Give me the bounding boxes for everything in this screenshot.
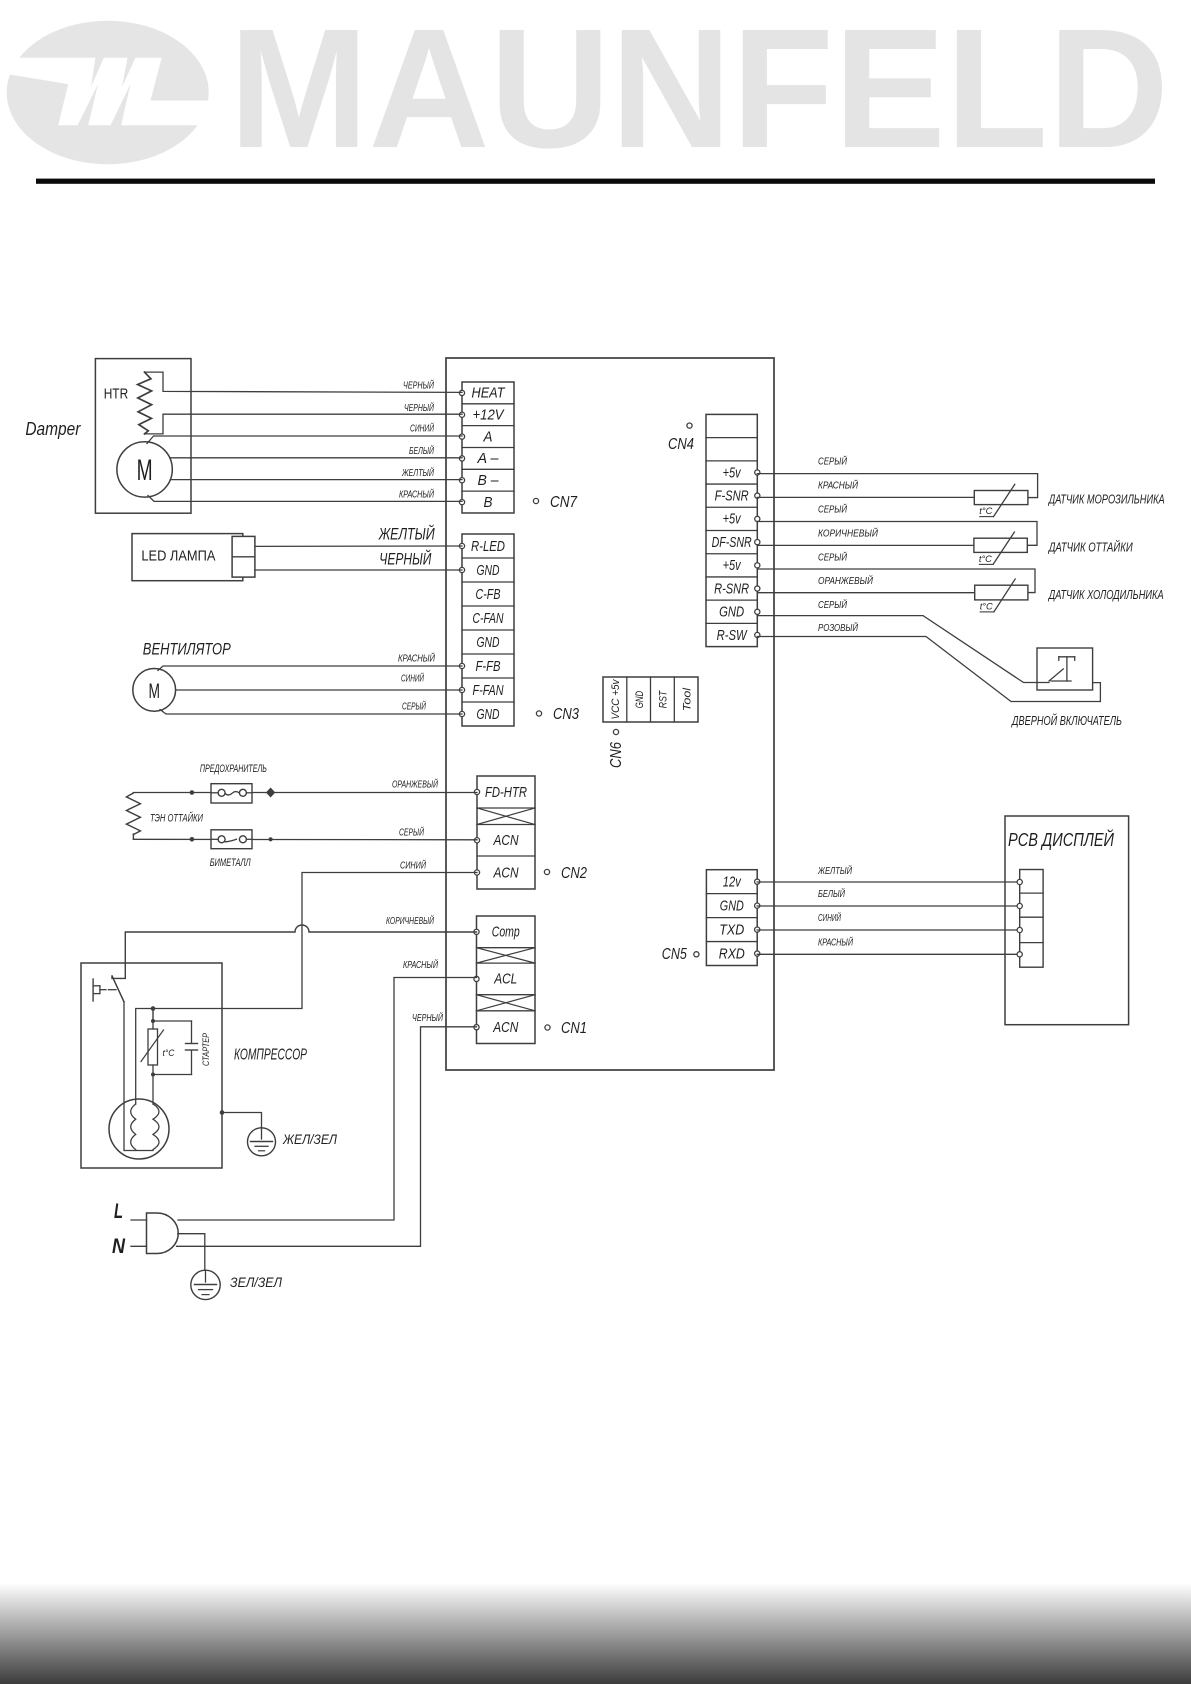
svg-text:F-FB: F-FB bbox=[476, 658, 501, 675]
svg-text:ACN: ACN bbox=[493, 832, 519, 849]
compressor box КОМПРЕССОР bbox=[81, 963, 222, 1168]
svg-text:C-FB: C-FB bbox=[476, 586, 501, 603]
svg-text:C-FAN: C-FAN bbox=[473, 610, 504, 627]
svg-text:GND: GND bbox=[477, 562, 500, 579]
pin display connector bbox=[1017, 879, 1022, 884]
svg-text:Tool: Tool bbox=[681, 687, 693, 711]
wire fuse line to FD-HTR (ОРАНЖЕВЫЙ) bbox=[133, 792, 477, 794]
pin ('A', 9) of CN7 bbox=[459, 434, 464, 439]
wire LED GND (ЧЕРНЫЙ) bbox=[255, 569, 462, 571]
svg-text:GND: GND bbox=[634, 691, 646, 708]
svg-text:CN4: CN4 bbox=[668, 436, 694, 453]
starter capacitor СТАРТЕР bbox=[186, 1021, 198, 1075]
mounting hole CN7 bbox=[533, 498, 538, 503]
svg-text:+5v: +5v bbox=[723, 511, 742, 528]
thermistor sensor fridge sensor bbox=[757, 569, 1035, 612]
thermistor sensor freezer sensor bbox=[757, 474, 1037, 517]
svg-text:КОМПРЕССОР: КОМПРЕССОР bbox=[234, 1047, 307, 1064]
svg-text:GND: GND bbox=[477, 706, 500, 723]
wire LED R-LED (ЖЕЛТЫЙ) bbox=[255, 545, 462, 547]
mains plug symbol bbox=[147, 1213, 179, 1254]
wire bimetal line to ACN (СЕРЫЙ) bbox=[133, 838, 477, 841]
svg-text:СЕРЫЙ: СЕРЫЙ bbox=[818, 503, 847, 516]
svg-text:F-SNR: F-SNR bbox=[715, 487, 749, 504]
wire КРАСНЫЙ ACL to plug L bbox=[178, 978, 477, 1221]
svg-text:ОРАНЖЕВЫЙ: ОРАНЖЕВЫЙ bbox=[818, 574, 873, 587]
connector CN1 bbox=[477, 916, 536, 1044]
mounting hole CN2 bbox=[544, 869, 549, 874]
wire +5v to defrost sensor bbox=[757, 522, 1037, 546]
svg-text:HEAT: HEAT bbox=[472, 385, 507, 402]
wire starter top node bbox=[153, 1020, 192, 1022]
LED lamp connector plug bbox=[232, 536, 255, 577]
svg-text:СИНИЙ: СИНИЙ bbox=[410, 422, 435, 435]
junction node bbox=[151, 1006, 156, 1011]
junction node bbox=[151, 1019, 155, 1023]
svg-text:ACN: ACN bbox=[493, 864, 519, 881]
mounting hole CN5 bbox=[694, 952, 699, 957]
svg-text:F-FAN: F-FAN bbox=[473, 682, 504, 699]
wire R-SW to door switch (РОЗОВЫЙ) bbox=[757, 637, 1100, 702]
svg-text:КРАСНЫЙ: КРАСНЫЙ bbox=[818, 936, 853, 949]
svg-text:КОРИЧНЕВЫЙ: КОРИЧНЕВЫЙ bbox=[386, 914, 435, 927]
svg-text:ЖЕЛТЫЙ: ЖЕЛТЫЙ bbox=[378, 524, 435, 544]
pin ('R-SNR', 35) of CN4 bbox=[755, 586, 760, 591]
wire ЧЕРНЫЙ ACN to plug N bbox=[177, 1027, 477, 1247]
svg-text:CN2: CN2 bbox=[561, 865, 587, 882]
wire GND to door switch (СЕРЫЙ) bbox=[757, 616, 1049, 683]
svg-text:LED ЛАМПА: LED ЛАМПА bbox=[141, 548, 215, 565]
mounting hole CN1 bbox=[545, 1025, 550, 1030]
wire CN5 12v to display bbox=[757, 881, 1020, 883]
svg-text:КРАСНЫЙ: КРАСНЫЙ bbox=[398, 652, 436, 665]
svg-text:ACN: ACN bbox=[492, 1019, 518, 1036]
svg-text:ACL: ACL bbox=[493, 971, 517, 988]
svg-text:ЖЕЛТЫЙ: ЖЕЛТЫЙ bbox=[401, 466, 434, 479]
pin ('DF-SNR', 40) of CN4 bbox=[755, 540, 760, 545]
junction bbox=[269, 837, 273, 841]
svg-text:Comp: Comp bbox=[492, 924, 520, 941]
pin ('+5v', 18) of CN4 bbox=[755, 516, 760, 521]
svg-text:GND: GND bbox=[719, 604, 744, 621]
svg-text:БЕЛЫЙ: БЕЛЫЙ bbox=[409, 444, 435, 457]
pin ('ACN', 25) of CN1 bbox=[474, 1025, 479, 1030]
svg-text:ДВЕРНОЙ ВКЛЮЧАТЕЛЬ: ДВЕРНОЙ ВКЛЮЧАТЕЛЬ bbox=[1011, 712, 1122, 728]
wire +5v to freezer sensor bbox=[757, 474, 1037, 498]
svg-text:A –: A – bbox=[477, 450, 500, 467]
svg-text:СЕРЫЙ: СЕРЫЙ bbox=[818, 551, 847, 564]
svg-text:RXD: RXD bbox=[719, 945, 745, 962]
svg-text:ЖЕЛТЫЙ: ЖЕЛТЫЙ bbox=[817, 864, 852, 877]
svg-text:CN1: CN1 bbox=[561, 1020, 587, 1037]
svg-text:R-LED: R-LED bbox=[471, 538, 505, 555]
svg-text:КРАСНЫЙ: КРАСНЫЙ bbox=[403, 958, 439, 971]
svg-text:R-SW: R-SW bbox=[717, 627, 748, 644]
motor M compressor winding bbox=[109, 1099, 169, 1159]
svg-text:L: L bbox=[114, 1200, 123, 1223]
ground symbol ЗЕЛ/ЗЕЛ bbox=[191, 1270, 220, 1299]
svg-text:ВЕНТИЛЯТОР: ВЕНТИЛЯТОР bbox=[143, 641, 231, 659]
svg-text:12v: 12v bbox=[723, 873, 742, 890]
diamond junction node bbox=[266, 788, 275, 798]
pin ('F-FB', 25) of CN3 bbox=[459, 663, 464, 668]
svg-text:Damper: Damper bbox=[25, 419, 81, 439]
svg-text:t°C: t°C bbox=[980, 601, 993, 612]
wire damper A- (БЕЛЫЙ) bbox=[170, 457, 462, 459]
footer gradient bar bbox=[0, 1583, 1191, 1684]
wire sensor return freezer sensor bbox=[757, 496, 974, 498]
wire HTR bottom to +12V pin (ЧЕРНЫЙ) bbox=[145, 414, 463, 434]
bimetal switch БИМЕТАЛЛ bbox=[211, 830, 252, 849]
damper assembly box bbox=[95, 359, 191, 514]
wire CN5 GND to display bbox=[757, 905, 1020, 907]
svg-text:M: M bbox=[137, 454, 153, 487]
svg-text:КРАСНЫЙ: КРАСНЫЙ bbox=[818, 479, 858, 492]
pin ('FD-HTR', 42) of CN2 bbox=[474, 789, 479, 794]
svg-text:N: N bbox=[112, 1235, 126, 1258]
wire sensor return defrost sensor bbox=[757, 544, 974, 546]
svg-text:+5v: +5v bbox=[723, 464, 742, 481]
svg-text:+12V: +12V bbox=[473, 407, 506, 424]
header rule bbox=[36, 179, 1155, 184]
connector CN5 bbox=[706, 870, 757, 966]
wire starter bottom node bbox=[153, 1074, 192, 1076]
svg-text:CN7: CN7 bbox=[550, 494, 578, 511]
junction on compressor case bbox=[220, 1110, 225, 1115]
svg-text:РСВ ДИСПЛЕЙ: РСВ ДИСПЛЕЙ bbox=[1008, 829, 1115, 850]
connector CN3 bbox=[462, 534, 514, 726]
svg-text:ДАТЧИК ХОЛОДИЛЬНИКА: ДАТЧИК ХОЛОДИЛЬНИКА bbox=[1047, 588, 1163, 602]
junction bbox=[190, 837, 195, 842]
svg-text:ДАТЧИК ОТТАЙКИ: ДАТЧИК ОТТАЙКИ bbox=[1047, 538, 1133, 554]
connector CN7 bbox=[462, 382, 514, 513]
pin ('HEAT', 33) of CN7 bbox=[459, 390, 464, 395]
svg-text:ТЭН ОТТАЙКИ: ТЭН ОТТАЙКИ bbox=[150, 812, 203, 825]
svg-text:t°C: t°C bbox=[979, 506, 992, 517]
svg-text:БЕЛЫЙ: БЕЛЫЙ bbox=[818, 887, 845, 900]
svg-text:СЕРЫЙ: СЕРЫЙ bbox=[402, 700, 427, 713]
svg-text:ЧЕРНЫЙ: ЧЕРНЫЙ bbox=[412, 1011, 444, 1024]
junction bbox=[190, 790, 195, 795]
wire CN5 RXD to display bbox=[757, 953, 1020, 955]
svg-text:БИМЕТАЛЛ: БИМЕТАЛЛ bbox=[210, 857, 251, 869]
pin display connector bbox=[1017, 952, 1022, 957]
junction node bbox=[151, 1073, 155, 1077]
mounting hole CN6 bbox=[613, 729, 618, 734]
wire CN5 TXD to display bbox=[757, 929, 1020, 931]
wire damper B- (ЖЕЛТЫЙ) bbox=[170, 479, 462, 481]
svg-text:CN3: CN3 bbox=[553, 706, 579, 723]
svg-text:СИНИЙ: СИНИЙ bbox=[818, 911, 841, 924]
mounting hole CN3 bbox=[536, 711, 541, 716]
svg-text:ЧЕРНЫЙ: ЧЕРНЫЙ bbox=[379, 549, 432, 569]
pin ('GND', 25) of CN4 bbox=[755, 609, 760, 614]
svg-text:CN5: CN5 bbox=[662, 946, 687, 963]
pin ('A &#8211;', 21) of CN7 bbox=[459, 456, 464, 461]
wire to chassis ground bbox=[222, 1113, 262, 1128]
pin ('R-LED', 34) of CN3 bbox=[459, 543, 464, 548]
PCB main board box bbox=[446, 358, 774, 1070]
wire fan F-FB (КРАСНЫЙ) bbox=[158, 666, 462, 671]
svg-text:R-SNR: R-SNR bbox=[714, 580, 749, 597]
svg-text:HTR: HTR bbox=[104, 387, 129, 403]
PCB display box bbox=[1005, 816, 1129, 1025]
wire HTR top to HEAT pin (ЧЕРНЫЙ) bbox=[145, 372, 463, 392]
svg-text:СЕРЫЙ: СЕРЫЙ bbox=[818, 455, 847, 468]
svg-text:РОЗОВЫЙ: РОЗОВЫЙ bbox=[818, 621, 858, 634]
pin ('GND', 23) of CN3 bbox=[459, 567, 464, 572]
pin ('+5v', 18) of CN4 bbox=[755, 470, 760, 475]
connector CN6 bbox=[603, 677, 698, 722]
PTC thermistor t°C bbox=[141, 1021, 175, 1065]
pin ('ACL', 23) of CN1 bbox=[474, 976, 479, 981]
pin ('F-FAN', 31) of CN3 bbox=[459, 687, 464, 692]
pin ('GND', 24) of CN5 bbox=[755, 903, 760, 908]
svg-text:СИНИЙ: СИНИЙ bbox=[401, 672, 425, 685]
wire fan GND (СЕРЫЙ) bbox=[160, 710, 462, 715]
wire L stub bbox=[131, 1219, 147, 1221]
wire N stub bbox=[131, 1245, 147, 1247]
svg-text:B –: B – bbox=[478, 472, 500, 489]
svg-text:ПРЕДОХРАНИТЕЛЬ: ПРЕДОХРАНИТЕЛЬ bbox=[200, 763, 267, 775]
thermistor sensor defrost sensor bbox=[757, 522, 1037, 565]
fuse ПРЕДОХРАНИТЕЛЬ bbox=[211, 784, 252, 803]
wire plug earth bbox=[178, 1234, 205, 1271]
svg-text:CN6: CN6 bbox=[608, 742, 625, 768]
wire КОРИЧНЕВЫЙ Comp pin to protector bbox=[112, 925, 477, 978]
pin ('RXD', 26) of CN5 bbox=[755, 951, 760, 956]
wire damper A (СИНИЙ) bbox=[147, 436, 462, 444]
svg-text:A: A bbox=[483, 428, 493, 445]
ground symbol ЖЕЛ/ЗЕЛ bbox=[248, 1128, 276, 1156]
pin ('+12V', 31) of CN7 bbox=[459, 412, 464, 417]
connector CN4 bbox=[706, 414, 757, 646]
svg-text:t°C: t°C bbox=[163, 1048, 175, 1059]
svg-text:СИНИЙ: СИНИЙ bbox=[400, 859, 427, 872]
svg-text:ЧЕРНЫЙ: ЧЕРНЫЙ bbox=[404, 401, 435, 414]
svg-text:t°C: t°C bbox=[979, 554, 992, 565]
pin display connector bbox=[1017, 927, 1022, 932]
pin ('ACN', 25) of CN2 bbox=[474, 870, 479, 875]
wire sensor return fridge sensor bbox=[757, 592, 974, 594]
pin ('B &#8211;', 21) of CN7 bbox=[459, 478, 464, 483]
pin display connector bbox=[1017, 903, 1022, 908]
svg-text:FD-HTR: FD-HTR bbox=[485, 784, 527, 801]
pin ('TXD', 25) of CN5 bbox=[755, 927, 760, 932]
wire starter to motor bbox=[152, 1075, 154, 1105]
wire +5v to fridge sensor bbox=[757, 569, 1035, 593]
pin ('Comp', 28) of CN1 bbox=[474, 929, 479, 934]
resistor HTR bbox=[138, 372, 152, 434]
svg-text:TXD: TXD bbox=[719, 921, 744, 938]
mounting hole CN4 bbox=[687, 423, 692, 428]
svg-text:ЖЕЛ/ЗЕЛ: ЖЕЛ/ЗЕЛ bbox=[282, 1132, 338, 1147]
svg-text:RST: RST bbox=[658, 690, 670, 708]
svg-text:КОРИЧНЕВЫЙ: КОРИЧНЕВЫЙ bbox=[818, 527, 878, 540]
svg-text:M: M bbox=[148, 679, 160, 703]
pin ('R-SW', 30) of CN4 bbox=[755, 632, 760, 637]
svg-text:КРАСНЫЙ: КРАСНЫЙ bbox=[399, 488, 435, 501]
pin ('F-SNR', 34) of CN4 bbox=[755, 493, 760, 498]
LED lamp box bbox=[132, 534, 243, 581]
svg-text:ДАТЧИК МОРОЗИЛЬНИКА: ДАТЧИК МОРОЗИЛЬНИКА bbox=[1047, 493, 1164, 507]
overload protector switch bbox=[93, 976, 124, 1001]
svg-text:ЗЕЛ/ЗЕЛ: ЗЕЛ/ЗЕЛ bbox=[230, 1275, 283, 1290]
svg-text:MAUNFELD: MAUNFELD bbox=[229, 0, 1169, 184]
svg-text:+5v: +5v bbox=[723, 557, 742, 574]
wire fan F-FAN (СИНИЙ) bbox=[176, 689, 462, 691]
svg-text:СТАРТЕР: СТАРТЕР bbox=[201, 1032, 212, 1066]
door switch ДВЕРНОЙ ВКЛЮЧАТЕЛЬ bbox=[1037, 648, 1093, 690]
svg-text:GND: GND bbox=[720, 897, 744, 914]
motor M damper bbox=[117, 442, 172, 497]
pin ('ACN', 25) of CN2 bbox=[474, 838, 479, 843]
wire СИНИЙ ACN to compressor bbox=[136, 873, 477, 1105]
display connector bbox=[1020, 870, 1043, 968]
svg-text:ОРАНЖЕВЫЙ: ОРАНЖЕВЫЙ bbox=[392, 778, 439, 791]
pin ('12v', 18) of CN5 bbox=[755, 879, 760, 884]
connector CN2 bbox=[477, 776, 535, 889]
pin ('+5v', 18) of CN4 bbox=[755, 563, 760, 568]
pin ('B', 9) of CN7 bbox=[459, 499, 464, 504]
wire protector to motor coil bbox=[123, 1002, 125, 1151]
svg-text:GND: GND bbox=[477, 634, 500, 651]
svg-text:VCC +5v: VCC +5v bbox=[610, 678, 622, 719]
svg-text:ЧЕРНЫЙ: ЧЕРНЫЙ bbox=[403, 379, 435, 392]
svg-text:B: B bbox=[484, 494, 493, 511]
motor M fan bbox=[133, 669, 176, 712]
resistor ТЭН ОТТАЙКИ zigzag bbox=[126, 793, 140, 835]
svg-text:СЕРЫЙ: СЕРЫЙ bbox=[399, 826, 425, 839]
svg-text:DF-SNR: DF-SNR bbox=[712, 534, 752, 551]
wire damper B (КРАСНЫЙ) bbox=[148, 496, 462, 502]
svg-text:СЕРЫЙ: СЕРЫЙ bbox=[818, 598, 847, 611]
pin ('GND', 23) of CN3 bbox=[459, 711, 464, 716]
logo MAUNFELD watermark ellipse bbox=[0, 21, 215, 165]
